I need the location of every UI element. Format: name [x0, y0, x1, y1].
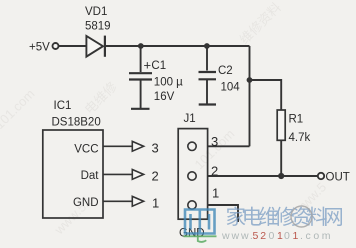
- junction node B: [204, 43, 210, 49]
- wire diode cathode to node A: [105, 45, 141, 47]
- ground C2: [199, 103, 216, 105]
- terminal OUT: [318, 173, 324, 179]
- capacitor C2 lead bottom: [206, 80, 208, 104]
- wire pin1 J1 to ground: [208, 205, 238, 222]
- svg-text:VCC: VCC: [74, 144, 98, 156]
- svg-text:.com: .com: [300, 230, 333, 242]
- svg-text:0: 0: [269, 230, 277, 242]
- capacitor C1 lead bottom: [140, 80, 142, 108]
- junction node C: [247, 77, 253, 83]
- wire junction C to R1 top: [250, 80, 282, 110]
- svg-text:www.: www.: [221, 230, 255, 242]
- watermark logo underline: [184, 236, 217, 242]
- svg-text:3: 3: [211, 134, 218, 149]
- svg-text:OUT: OUT: [326, 172, 350, 184]
- wire node A to node B: [141, 45, 207, 47]
- junction node D: [278, 173, 284, 179]
- wire VCC to arrow 3: [103, 145, 132, 147]
- svg-text:+5V: +5V: [29, 42, 50, 54]
- wire pin2 J1 to OUT: [208, 175, 318, 177]
- svg-text:VD1: VD1: [85, 6, 107, 18]
- svg-text:4.7k: 4.7k: [289, 132, 311, 144]
- capacitor C2 lead top: [206, 46, 208, 71]
- wire right rail down to pin3 line: [249, 46, 251, 146]
- IC IC1 DS18B20 box: [43, 130, 103, 218]
- wire R1 bottom to junction D: [280, 140, 282, 176]
- connector J1 box: [178, 129, 207, 220]
- arrow pin 3: [132, 141, 143, 151]
- junction node A: [138, 43, 144, 49]
- svg-text:5819: 5819: [85, 21, 111, 33]
- svg-text:家电维修资料网: 家电维修资料网: [226, 206, 343, 229]
- svg-text:IC1: IC1: [54, 100, 72, 112]
- watermark url www.520101.com: [221, 230, 333, 242]
- svg-text:100 µ: 100 µ: [154, 77, 183, 89]
- svg-text:1: 1: [152, 196, 159, 211]
- svg-text:3: 3: [152, 141, 159, 156]
- node +5V terminal: [53, 43, 59, 49]
- svg-text:DS18B20: DS18B20: [52, 117, 101, 129]
- svg-text:C1: C1: [151, 60, 166, 72]
- svg-text:J1: J1: [184, 113, 196, 125]
- svg-text:+: +: [144, 58, 152, 73]
- diode VD1: [86, 36, 103, 57]
- arrow pin 1: [132, 196, 143, 206]
- svg-text:104: 104: [221, 82, 241, 94]
- watermark seal circle: [291, 206, 312, 227]
- arrow pin 2: [132, 170, 143, 180]
- svg-text:1: 1: [212, 185, 219, 200]
- svg-text:0: 0: [284, 230, 292, 242]
- capacitor C1 lead top: [140, 46, 142, 72]
- capacitor C2 plates: [199, 71, 217, 73]
- ground C1: [131, 108, 150, 110]
- wire pin3 J1 to right rail: [208, 145, 250, 147]
- watermark logo book: [185, 210, 215, 234]
- svg-text:Dat: Dat: [81, 170, 100, 182]
- svg-text:2: 2: [152, 168, 159, 183]
- svg-text:C2: C2: [218, 65, 233, 77]
- J1 pin1 circle: [188, 201, 196, 209]
- resistor R1: [277, 110, 285, 140]
- J1 pin3 circle: [188, 142, 196, 150]
- capacitor C1 plates: [129, 72, 152, 74]
- wire node B to top-right corner: [207, 45, 250, 47]
- wire Dat to arrow 2: [103, 173, 132, 175]
- svg-text:52: 52: [253, 230, 268, 242]
- svg-text:GND: GND: [73, 197, 99, 209]
- J1 pin2 circle: [188, 172, 196, 180]
- wire +5V to diode anode: [59, 45, 87, 47]
- svg-text:2: 2: [211, 164, 218, 179]
- svg-text:16V: 16V: [154, 91, 175, 103]
- svg-text:R1: R1: [289, 113, 304, 125]
- wire GND to arrow 1: [103, 200, 132, 202]
